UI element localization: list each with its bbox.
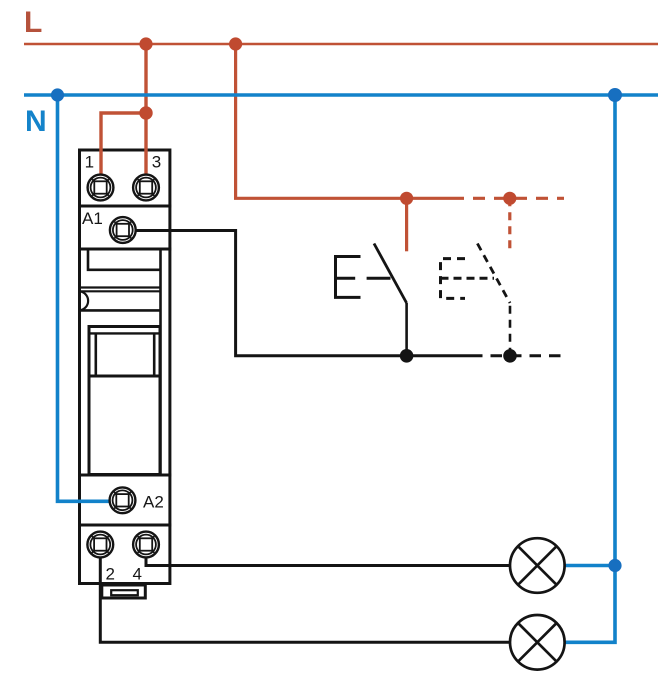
svg-text:L: L	[24, 6, 42, 39]
svg-text:A2: A2	[143, 493, 164, 512]
svg-text:1: 1	[85, 153, 94, 172]
svg-text:3: 3	[152, 153, 161, 172]
svg-text:2: 2	[106, 565, 115, 584]
svg-text:N: N	[25, 105, 47, 138]
svg-text:A1: A1	[82, 209, 103, 228]
svg-text:4: 4	[133, 565, 142, 584]
